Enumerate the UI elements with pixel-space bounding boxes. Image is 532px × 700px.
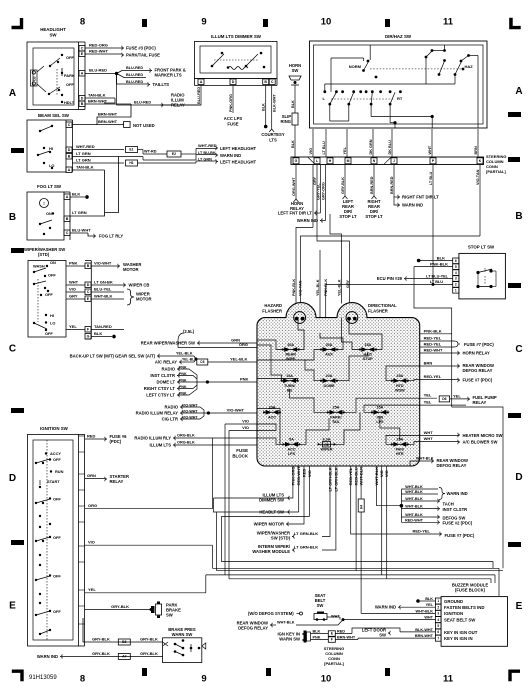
long horizontal run 3 [206, 574, 495, 576]
svg-text:MOTOR: MOTOR [123, 267, 139, 272]
wire ORG-BLK illum lts [173, 443, 175, 447]
svg-text:YEL-BLK: YEL-BLK [337, 279, 341, 296]
svg-text:A7: A7 [122, 655, 126, 659]
svg-text:GRY-ORG: GRY-ORG [322, 182, 326, 200]
svg-text:VIO-WHT: VIO-WHT [94, 261, 112, 266]
svg-text:WARN IND: WARN IND [37, 654, 58, 659]
svg-text:OFF: OFF [45, 331, 53, 336]
svg-text:WHT: WHT [424, 616, 433, 620]
wire from stop switch down to right-side bus [414, 284, 452, 407]
svg-text:STOP LT SW: STOP LT SW [468, 245, 495, 250]
wire YEL from ignition to long run 3 [85, 592, 206, 594]
wire VIO pair into fuse block [225, 423, 259, 425]
steering column connector strip [291, 157, 484, 165]
wire YEL-BLK between flashers [319, 250, 321, 318]
wire PNK-BLK stop switch loop [414, 266, 453, 268]
svg-text:B: B [68, 155, 71, 159]
svg-text:DIMMER SW: DIMMER SW [259, 498, 284, 503]
right tick marks [508, 112, 521, 117]
stop switch contacts [476, 271, 479, 274]
svg-text:LO: LO [50, 321, 55, 326]
long horizontal run 1 [213, 567, 500, 569]
svg-text:DEFOG RELAY: DEFOG RELAY [437, 463, 467, 468]
svg-text:WDW: WDW [395, 388, 405, 392]
svg-text:[PARTIAL]: [PARTIAL] [486, 169, 506, 174]
svg-text:B: B [515, 211, 522, 222]
svg-text:STOP LT: STOP LT [339, 214, 357, 219]
svg-text:BLU-RED: BLU-RED [89, 68, 107, 73]
svg-text:B: B [81, 102, 84, 106]
svg-text:(W/O DEFOG SYSTEM): (W/O DEFOG SYSTEM) [248, 611, 294, 616]
svg-text:WIPER MOTOR: WIPER MOTOR [254, 522, 284, 527]
svg-text:WHT-BLK: WHT-BLK [405, 497, 423, 501]
svg-text:B: B [9, 212, 16, 223]
svg-text:F: F [331, 638, 333, 642]
wire BRN-WHT from F [335, 639, 358, 641]
svg-text:4: 4 [437, 618, 439, 622]
svg-text:GRY: GRY [346, 279, 350, 288]
wire VIO vertical from radio row to run 3 [224, 424, 226, 575]
svg-text:PNK: PNK [313, 635, 321, 639]
svg-text:A/C BLOWER SW: A/C BLOWER SW [463, 440, 498, 445]
svg-text:RED-WHT: RED-WHT [424, 348, 443, 353]
svg-text:YEL: YEL [69, 324, 77, 329]
svg-text:TAILLTS: TAILLTS [153, 82, 170, 87]
svg-text:CIG LTR: CIG LTR [162, 417, 178, 422]
wire RED to fuse 6 PDC [85, 438, 105, 440]
svg-text:RED: RED [87, 434, 96, 439]
svg-text:A: A [515, 86, 522, 97]
wire WHT-BLK to cluster junction [375, 466, 377, 506]
svg-text:TURN/: TURN/ [284, 384, 295, 388]
fuse block internal wiring [258, 340, 283, 350]
svg-text:8: 8 [80, 17, 85, 28]
svg-text:11: 11 [443, 17, 454, 28]
direction hazard switch DIR/HAZ SW [310, 34, 488, 128]
svg-text:FOG LT SW: FOG LT SW [37, 184, 62, 189]
ignition switch [28, 426, 79, 646]
wire BLU-RED to taillights [117, 74, 149, 85]
svg-text:BLK: BLK [313, 629, 321, 633]
svg-text:IGNITION: IGNITION [444, 611, 463, 616]
svg-text:A: A [81, 72, 84, 76]
wiper washer terminals B D C E F G [85, 263, 91, 269]
wire BRN-WHT to beam select C [73, 104, 132, 125]
svg-text:ON: ON [46, 211, 52, 216]
left door switch label [388, 631, 390, 635]
hazard flasher can [294, 312, 306, 324]
svg-text:C: C [515, 344, 522, 355]
svg-text:BLU-RED: BLU-RED [126, 80, 143, 84]
buzzer module fuse block [435, 583, 507, 647]
svg-text:10: 10 [321, 674, 332, 685]
svg-text:YEL-BLK: YEL-BLK [176, 352, 193, 356]
svg-text:FAN/: FAN/ [396, 448, 404, 452]
svg-text:BRN-RED: BRN-RED [390, 176, 394, 194]
svg-text:BLU-RED: BLU-RED [126, 73, 143, 77]
svg-text:GRY-BLK: GRY-BLK [140, 651, 158, 656]
svg-text:PNK: PNK [69, 261, 78, 266]
fuse 15A IGN LPS [372, 411, 388, 413]
wire GRY-BLK warn ind through A7 [60, 654, 62, 658]
svg-text:SW (STD): SW (STD) [271, 536, 291, 541]
svg-text:[PARTIAL]: [PARTIAL] [324, 661, 344, 666]
svg-text:BRN-WHT: BRN-WHT [88, 99, 108, 104]
wire BLU-WHT to fog light relay [70, 232, 88, 234]
fuse 25A PARK/ TAIL [328, 411, 344, 413]
wire BLU-RED from dimmer A [160, 86, 201, 106]
wire BLK PNK to E F terminals [311, 633, 329, 635]
fuse 20A REAR WIPE [283, 349, 299, 351]
beam select switch [27, 113, 70, 172]
svg-text:J: J [393, 159, 395, 163]
wire PNK-ORG to acc lps fuse [232, 86, 234, 114]
svg-text:20A: 20A [269, 406, 276, 410]
svg-text:YEL: YEL [426, 603, 434, 607]
svg-text:5: 5 [437, 624, 439, 628]
warning cluster junction wires [400, 504, 404, 508]
svg-text:BRN-WHT: BRN-WHT [415, 634, 434, 638]
dir haz bus wiring [331, 57, 364, 59]
svg-text:20A: 20A [326, 374, 333, 378]
svg-text:OFF: OFF [53, 497, 61, 502]
svg-text:LT GRN: LT GRN [198, 157, 212, 161]
svg-text:A: A [200, 80, 203, 84]
svg-text:D: D [68, 148, 71, 152]
wire wrap down to headlt row [214, 498, 299, 512]
svg-text:C: C [271, 80, 274, 84]
wire PNK-BLK right exit [420, 333, 452, 335]
svg-text:WARN IND: WARN IND [447, 491, 468, 496]
svg-text:D: D [9, 473, 16, 484]
svg-text:L: L [316, 159, 318, 163]
svg-text:DIRECTIONAL: DIRECTIONAL [368, 303, 397, 308]
svg-text:RADIO ILLUM RELAY: RADIO ILLUM RELAY [136, 411, 179, 416]
svg-text:B6: B6 [122, 640, 126, 644]
svg-text:WIPER CB: WIPER CB [129, 283, 150, 288]
svg-text:STOP LT: STOP LT [365, 214, 383, 219]
svg-text:ORG: ORG [88, 503, 97, 508]
wire RED to wiper motor [288, 466, 304, 524]
svg-text:WARN IND: WARN IND [297, 218, 318, 223]
wire BLU-RED feed with junction [85, 73, 117, 75]
wire TAN-BLK from beam select A down to fog switch [73, 169, 105, 171]
svg-text:1: 1 [437, 599, 439, 603]
svg-text:MARKER LTS: MARKER LTS [155, 73, 182, 78]
wire VIO vertical from radio row to run 4 [228, 431, 230, 579]
svg-text:GRY: GRY [69, 294, 78, 299]
wire LT GRN-BLK to wiper washer switch [322, 466, 330, 537]
svg-text:ORG-WHT: ORG-WHT [292, 177, 296, 196]
svg-text:CB: CB [32, 76, 36, 81]
svg-text:KEY IN IGN OUT: KEY IN IGN OUT [444, 630, 478, 635]
svg-text:OFF: OFF [45, 292, 53, 297]
horn switch [289, 63, 301, 85]
svg-text:YEL-BLK: YEL-BLK [230, 357, 247, 362]
svg-text:GRY-BLK: GRY-BLK [140, 637, 158, 642]
long horizontal run 2 [217, 570, 503, 572]
wire LT BLU row to fuse block [326, 283, 453, 285]
svg-text:BRN: BRN [474, 146, 478, 154]
svg-text:HAZARD: HAZARD [264, 303, 282, 308]
wire ORG-WHT to horn relay [295, 165, 297, 200]
svg-text:YEL: YEL [453, 393, 461, 398]
wire BLK ground from G [91, 336, 112, 338]
svg-text:DK GRN: DK GRN [369, 139, 373, 154]
svg-text:20A: 20A [287, 343, 294, 347]
svg-text:OFF: OFF [66, 82, 74, 87]
svg-text:SEAT BELT SW: SEAT BELT SW [444, 617, 476, 622]
wiper washer switch STD [24, 247, 66, 337]
svg-text:GROUND: GROUND [444, 599, 463, 604]
svg-text:WARN SW: WARN SW [172, 632, 193, 637]
svg-text:WHT-BLK: WHT-BLK [94, 294, 113, 299]
slip ring [281, 113, 298, 125]
svg-text:LEFT FNT DIR LT: LEFT FNT DIR LT [278, 211, 313, 216]
svg-text:WHT: WHT [424, 430, 434, 435]
svg-text:BLK: BLK [425, 597, 433, 601]
wire BLK horn to slip ring [294, 85, 296, 113]
wire BRN-RED to right rear dir stop light [373, 165, 375, 197]
svg-text:LT GRN-BLK: LT GRN-BLK [294, 545, 318, 550]
wire RED-YEL to fuse 7 [420, 340, 454, 342]
wire ORG rear wiper washer [178, 347, 259, 349]
wire PNK VIO-WHT to washer motor [66, 265, 85, 267]
svg-text:WHT-BLK: WHT-BLK [405, 490, 423, 494]
wire WHT to heater micro switch [420, 434, 458, 436]
svg-text:E2: E2 [172, 152, 176, 156]
svg-text:6: 6 [437, 630, 439, 634]
svg-text:20A: 20A [326, 343, 333, 347]
svg-text:WIPER: WIPER [320, 448, 332, 452]
svg-text:GRY-BLK: GRY-BLK [341, 177, 345, 194]
svg-text:GRY-BLK: GRY-BLK [92, 651, 110, 656]
svg-text:C: C [9, 344, 16, 355]
svg-text:SW: SW [292, 68, 299, 73]
svg-text:GRY-YEL: GRY-YEL [317, 183, 321, 200]
fog light terminals A B C [64, 194, 70, 200]
wire ORG from ignition up to radio illum row [85, 508, 213, 510]
illumination lights dimmer switch [195, 34, 278, 78]
wire LT GRN through H1 to left headlight [72, 162, 124, 164]
stop light switch [459, 245, 506, 299]
svg-text:PARK/TAIL FUSE: PARK/TAIL FUSE [126, 53, 160, 58]
svg-text:LTS: LTS [269, 138, 277, 143]
beam select contacts [39, 130, 41, 132]
svg-text:WHT: WHT [331, 615, 340, 619]
svg-text:WHT-RED: WHT-RED [198, 143, 217, 148]
svg-text:(PDC): (PDC) [110, 439, 122, 444]
fuse 15A HAZ/ STOP [360, 349, 376, 351]
wire LT BLU down from P to stop light row [432, 165, 434, 285]
wire BLK-WHT key in ign out [400, 631, 435, 633]
svg-text:KEY IN IGN IN: KEY IN IGN IN [444, 636, 473, 641]
fuse 15A TURN/ BU [282, 380, 298, 382]
svg-text:BEAM SEL SW: BEAM SEL SW [38, 113, 70, 118]
wire BRN-RED to right front dir light [393, 165, 395, 198]
svg-text:15A: 15A [377, 406, 384, 410]
svg-text:BLK-WHT: BLK-WHT [415, 628, 433, 632]
wire WHT-BLK to buzzer ignition [361, 612, 435, 614]
svg-text:SW: SW [49, 33, 57, 38]
svg-text:5: 5 [455, 265, 457, 269]
wire ORG-BLK radio illum rly [173, 436, 175, 440]
svg-text:E: E [9, 601, 16, 612]
svg-text:FUSE #3 (PDC): FUSE #3 (PDC) [126, 46, 156, 51]
svg-text:15A: 15A [286, 374, 293, 378]
headlight switch SW [27, 27, 79, 110]
wire WHT LT GN-BK to wiper CB [66, 284, 85, 286]
svg-text:B: B [264, 80, 267, 84]
svg-text:SW: SW [317, 603, 324, 608]
svg-text:WHT-RED: WHT-RED [76, 144, 95, 149]
svg-text:WARN IND: WARN IND [402, 203, 423, 208]
svg-text:TACH: TACH [443, 501, 454, 506]
bottom tick marks [142, 668, 147, 676]
svg-text:REAR WIPER/WASHER SW: REAR WIPER/WASHER SW [141, 341, 195, 346]
svg-text:M: M [347, 159, 350, 163]
svg-text:5A: 5A [289, 438, 294, 442]
svg-text:11: 11 [443, 674, 454, 685]
svg-text:ACC: ACC [288, 448, 296, 452]
svg-text:6.3A: 6.3A [323, 438, 331, 442]
wire LT GRN-BLK to interm wiper washer module [322, 466, 336, 550]
svg-text:ACC: ACC [268, 416, 276, 420]
wire BRN-WHT key in ign in [358, 637, 435, 639]
svg-text:25A: 25A [396, 374, 403, 378]
svg-text:DOME: DOME [323, 384, 335, 388]
svg-text:WHT: WHT [428, 145, 432, 154]
svg-text:C: C [87, 290, 90, 294]
wire GRN to starter relay [85, 478, 105, 480]
svg-text:D: D [81, 97, 84, 101]
svg-text:BRN-WHT: BRN-WHT [337, 635, 356, 639]
svg-text:TAN-BLK: TAN-BLK [76, 165, 94, 170]
svg-text:VIO-TAN: VIO-TAN [299, 280, 303, 296]
svg-text:INST CLSTR: INST CLSTR [443, 507, 468, 512]
svg-text:HAZ: HAZ [465, 64, 474, 69]
wire BLK stop switch [420, 260, 453, 262]
svg-text:VIO: VIO [88, 540, 95, 545]
svg-text:(2.5L): (2.5L) [183, 329, 195, 334]
svg-text:BLK: BLK [291, 100, 295, 108]
wire VIO-TAN from K to fuse block [479, 165, 481, 237]
svg-text:GRN: GRN [87, 473, 96, 478]
ignition switch terminal strip [79, 433, 85, 435]
svg-text:NOT USED: NOT USED [133, 123, 155, 128]
wire RED-YEL to fuse 7 bottom [351, 466, 440, 534]
wire RED-ORG to fuse 3 [85, 47, 122, 49]
wire vertical feed for run 2 [216, 512, 218, 571]
svg-text:4: 4 [455, 271, 457, 275]
svg-text:BLU-WHT: BLU-WHT [72, 228, 91, 233]
svg-text:WIPE: WIPE [286, 357, 296, 361]
svg-text:BLK-WHT: BLK-WHT [273, 94, 277, 112]
svg-text:BLU-YEL: BLU-YEL [94, 287, 112, 292]
svg-text:LT GRN: LT GRN [76, 158, 91, 163]
svg-text:BLU-RED: BLU-RED [134, 101, 151, 105]
fuse 20A DOME [321, 380, 337, 382]
svg-text:ORG-BLK: ORG-BLK [177, 433, 195, 437]
fuse 20A AUX [321, 349, 337, 351]
svg-text:RED-YEL: RED-YEL [424, 374, 442, 379]
svg-text:COURTESY: COURTESY [261, 132, 284, 137]
svg-text:(STD): (STD) [38, 252, 50, 257]
svg-text:PARK/: PARK/ [330, 416, 341, 420]
svg-text:OFF: OFF [53, 574, 61, 579]
dimmer switch contacts [211, 65, 214, 68]
svg-text:YEL: YEL [343, 146, 347, 154]
svg-text:GRY-BLK: GRY-BLK [92, 637, 110, 642]
svg-text:RADIO: RADIO [162, 367, 176, 372]
svg-text:HI: HI [50, 313, 54, 318]
svg-text:WHT: WHT [69, 280, 79, 285]
svg-text:HEADLT SW: HEADLT SW [259, 510, 284, 515]
svg-text:LT BU-BK: LT BU-BK [198, 151, 216, 155]
dimmer terminal strip A D B C [195, 77, 278, 79]
svg-text:ACC LPS: ACC LPS [224, 116, 243, 121]
svg-text:VIO: VIO [242, 418, 249, 423]
svg-text:CB: CB [324, 443, 329, 447]
svg-text:RADIO: RADIO [165, 405, 179, 410]
svg-text:BLK: BLK [262, 103, 266, 111]
svg-text:LT GN-BK: LT GN-BK [94, 280, 113, 285]
wire WHT to seat belt switch terminal [343, 619, 435, 621]
svg-text:WHT-BLK: WHT-BLK [415, 609, 433, 613]
svg-text:D: D [232, 80, 235, 84]
connector NOT USED [97, 124, 124, 126]
svg-text:RADIO ILLUM RLY: RADIO ILLUM RLY [134, 436, 171, 441]
svg-text:WHT: WHT [424, 436, 434, 441]
wire BLU-RED to front park and marker lights [117, 71, 151, 74]
svg-text:D: D [515, 472, 522, 483]
wire GRN rear wiper washer switch [197, 341, 199, 345]
svg-text:6: 6 [455, 259, 457, 263]
svg-text:9: 9 [201, 17, 206, 28]
wire BRN-WHT from terminal B [85, 103, 131, 105]
svg-text:PNK: PNK [240, 376, 249, 381]
wire WHT-BLK rear window defog relay bottom [270, 623, 272, 627]
svg-text:DK BLU: DK BLU [388, 140, 392, 155]
stop light terminals 6 5 4 3 2 1 [453, 258, 459, 264]
svg-text:1: 1 [455, 288, 457, 292]
svg-text:A: A [68, 168, 71, 172]
svg-text:A: A [66, 195, 69, 199]
warn ind stub right [394, 197, 398, 205]
svg-text:FUSE #7 (PDC): FUSE #7 (PDC) [464, 342, 494, 347]
svg-text:VIO: VIO [69, 287, 76, 292]
svg-text:YEL: YEL [88, 587, 96, 592]
wires VIO-WHT radio illum relay cig ltr [180, 405, 182, 409]
svg-text:B: B [87, 264, 90, 268]
svg-text:FUSE: FUSE [227, 122, 238, 127]
wire BLK-WHT to courtesy lts [271, 86, 273, 130]
svg-text:8: 8 [80, 674, 85, 685]
svg-text:HDLT: HDLT [64, 100, 75, 105]
park brake switch [150, 602, 182, 619]
svg-text:WARN IND: WARN IND [375, 605, 396, 610]
svg-text:ACCY: ACCY [50, 451, 61, 456]
wire VIO from ignition to long run 1 [85, 544, 213, 546]
svg-text:BRN-WHT: BRN-WHT [98, 112, 118, 117]
wires PNK radio inst-clstr dome courtesy [177, 367, 179, 371]
wire VIO feed to hazard flasher [296, 227, 313, 303]
svg-text:IGNITION SW: IGNITION SW [40, 426, 69, 431]
svg-text:RT: RT [397, 96, 403, 101]
svg-text:FASTEN BELTS IND: FASTEN BELTS IND [444, 605, 485, 610]
svg-text:RED: RED [337, 629, 345, 633]
svg-text:C6: C6 [200, 360, 204, 364]
